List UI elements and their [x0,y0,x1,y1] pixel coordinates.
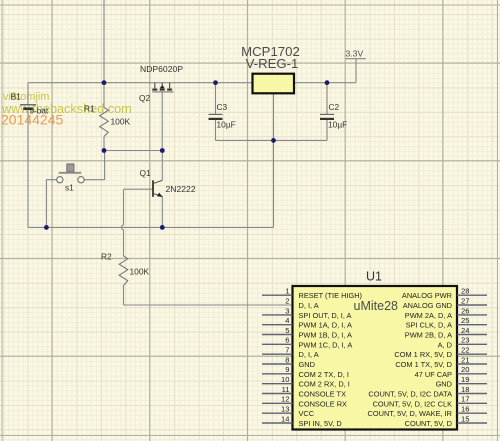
pin 9 COM 2 TX, D, I [262,365,349,379]
svg-text:10: 10 [281,375,289,384]
svg-text:21: 21 [461,355,469,364]
power flag 3.3V [346,49,367,59]
transistor Q2 NDP6020P (P-MOSFET) [139,64,183,103]
svg-text:A, D: A, D [438,340,452,349]
svg-text:GND: GND [436,380,452,389]
svg-text:14: 14 [281,414,289,423]
svg-text:CONSOLE TX: CONSOLE TX [299,390,347,399]
svg-text:100K: 100K [111,117,131,127]
wire top rail (battery + to V-REG input) [28,82,253,84]
svg-text:47 UF CAP: 47 UF CAP [415,370,452,379]
svg-text:27: 27 [461,296,469,305]
svg-text:9-bat: 9-bat [30,107,49,116]
svg-text:Q1: Q1 [140,168,152,178]
svg-text:ANALOG PWR: ANALOG PWR [402,291,452,300]
wire S1 left lead [46,180,56,228]
wire C3 column top [215,83,217,114]
wire C2 column top [326,83,328,114]
pin 3 SPI OUT, D, I, A [262,306,352,320]
svg-text:8: 8 [285,355,289,364]
svg-text:V-REG-1: V-REG-1 [246,56,299,71]
wire Q2 gate column [161,92,163,150]
svg-text:D, I, A: D, I, A [299,301,319,310]
svg-text:PWM 1A, D, I, A: PWM 1A, D, I, A [299,321,352,330]
switch S1 (pushbutton) [57,164,84,193]
capacitor C3 10uF [209,102,236,130]
svg-text:COUNT, 5V, D: COUNT, 5V, D [405,419,452,428]
wire Q1 base lead [124,188,153,190]
svg-text:17: 17 [461,395,469,404]
svg-text:Q2: Q2 [139,93,151,103]
resistor R1 100K [84,104,130,137]
svg-text:22: 22 [461,346,469,355]
svg-text:SPI OUT, D, I, A: SPI OUT, D, I, A [299,311,352,320]
pin 5 PWM 1B, D, I, A [262,326,352,340]
pin 24 PWM 2B, D, A [405,326,487,340]
wire V-REG output to 3.3V corner [294,82,356,84]
pin 25 SPI CLK, D, A [406,316,487,330]
wire V-REG ground pin [273,93,275,140]
pin 14 SPI IN, 5V, D [262,414,342,428]
capacitor C2 10uF [320,102,347,130]
svg-text:R1: R1 [84,104,95,114]
pin 10 COM 2 RX, D, I [262,375,350,389]
junction S1 / ground rail [44,225,49,230]
svg-text:18: 18 [461,385,469,394]
junction V-REG GND / capacitor rail [271,138,276,143]
svg-text:COM 2 RX, D, I: COM 2 RX, D, I [299,380,350,389]
svg-text:D, I, A: D, I, A [299,350,319,359]
svg-text:15: 15 [461,414,469,423]
svg-text:COUNT, 5V, D, WAKE, IR: COUNT, 5V, D, WAKE, IR [368,409,452,418]
wire R2 to U1 pin 2 [124,304,293,306]
svg-text:11: 11 [282,385,290,394]
pin 4 PWM 1A, D, I, A [262,316,352,330]
svg-text:10µF: 10µF [217,120,236,130]
resistor R2 100K [101,252,149,286]
wire battery column lower [27,109,29,227]
IC U1 uMite28 [293,270,458,430]
pin 13 VCC [262,405,315,419]
svg-text:6: 6 [285,336,289,345]
svg-text:C2: C2 [329,102,340,112]
junction R1 / S1 mid rail [102,148,107,153]
pin 21 COM 1 TX, 5V, D [395,355,487,369]
pin 2 D, I, A [285,296,318,310]
svg-text:COM 2 TX, D, I: COM 2 TX, D, I [299,370,349,379]
svg-text:GND: GND [299,360,315,369]
svg-text:R2: R2 [101,252,112,262]
svg-text:3.3V: 3.3V [346,49,364,59]
pin 15 COUNT, 5V, D [405,414,487,428]
svg-text:5: 5 [285,326,289,335]
pin 6 PWM 1C, D, I, A [262,336,352,350]
svg-text:25: 25 [461,316,469,325]
svg-text:NDP6020P: NDP6020P [140,64,183,74]
junction Q1 emitter / ground rail [160,225,165,230]
wire C3 column bottom [215,120,217,141]
svg-text:uMite28: uMite28 [354,299,399,313]
svg-text:VCC: VCC [299,409,315,418]
svg-text:COUNT, 5V, D, I2C CLK: COUNT, 5V, D, I2C CLK [373,399,452,408]
svg-text:13: 13 [281,405,289,414]
wire Q1 base to R2 with hop over ground rail [122,189,124,256]
svg-text:100K: 100K [130,267,150,277]
pin 12 CONSOLE RX [262,395,347,409]
junction Q2 gate / Q1 collector [160,148,165,153]
pin 11 CONSOLE TX [262,385,346,399]
svg-text:SPI IN, 5V, D: SPI IN, 5V, D [299,419,342,428]
svg-text:7: 7 [285,346,289,355]
svg-text:28: 28 [461,287,469,296]
svg-text:COUNT, 5V, D, I2C DATA: COUNT, 5V, D, I2C DATA [368,390,452,399]
wire bottom ground rail [28,226,274,228]
wire 3.3V riser [355,59,357,83]
wire from top edge (off-sheet supply) [103,0,105,83]
svg-text:9: 9 [285,365,289,374]
junction C2 / 3.3V output rail [325,80,330,85]
svg-text:PWM 2A, D, A: PWM 2A, D, A [405,311,452,320]
svg-text:RESET (TIE HIGH): RESET (TIE HIGH) [299,291,363,300]
wire S1 right lead [84,151,104,180]
svg-text:24: 24 [461,326,469,335]
svg-text:PWM 1C, D, I, A: PWM 1C, D, I, A [299,340,353,349]
svg-text:23: 23 [461,336,469,345]
svg-text:19: 19 [461,375,469,384]
pin 22 COM 1 RX, 5V, D [394,346,487,360]
svg-text:COM 1 TX, 5V, D: COM 1 TX, 5V, D [395,360,452,369]
pin 19 GND [436,375,487,389]
pin 27 ANALOG GND [403,296,487,310]
pin 20 47 UF CAP [415,365,487,379]
pin 1 RESET (TIE HIGH) [262,287,362,301]
svg-text:20: 20 [461,365,469,374]
svg-text:s1: s1 [65,184,74,193]
svg-text:PWM 1B, D, I, A: PWM 1B, D, I, A [299,331,352,340]
svg-text:4: 4 [285,316,289,325]
svg-text:ANALOG GND: ANALOG GND [403,301,452,310]
wire capacitor ground rail [216,139,328,141]
transistor Q1 2N2222 (NPN) [140,168,196,197]
svg-text:1: 1 [285,287,289,296]
junction R1 / top rail [102,80,107,85]
battery B1 [11,92,49,116]
svg-text:U1: U1 [366,270,382,284]
svg-text:SPI CLK, D, A: SPI CLK, D, A [406,321,452,330]
svg-text:2N2222: 2N2222 [166,184,196,194]
svg-text:2: 2 [285,296,289,305]
svg-text:12: 12 [281,395,289,404]
svg-text:C3: C3 [217,102,228,112]
wire R1 top stub [103,83,105,108]
pin 26 PWM 2A, D, A [405,306,487,320]
pin 8 GND [262,355,315,369]
wire mid rail (R1/S1 to gate/collector) [104,150,162,152]
wire C2 column bottom [326,120,328,141]
svg-text:26: 26 [461,306,469,315]
svg-text:CONSOLE RX: CONSOLE RX [299,399,348,408]
svg-text:PWM 2B, D, A: PWM 2B, D, A [405,331,452,340]
wire Q1 emitter drop [161,197,163,228]
wire R1 bottom stub [103,137,105,151]
svg-text:10µF: 10µF [328,120,347,130]
pin 7 D, I, A [262,346,319,360]
svg-text:COM 1 RX, 5V, D: COM 1 RX, 5V, D [394,350,452,359]
wire Q1 collector riser [161,151,163,181]
svg-text:16: 16 [461,405,469,414]
wire ground drop to bottom rail [273,140,275,227]
pin 17 COUNT, 5V, D, I2C CLK [373,395,487,409]
wire R2 bottom stub [123,286,125,306]
pin 16 COUNT, 5V, D, WAKE, IR [368,405,487,419]
voltage regulator MCP1702 V-REG-1 [241,44,300,93]
svg-text:B1: B1 [11,92,22,102]
pin 18 COUNT, 5V, D, I2C DATA [368,385,487,399]
junction C3 / V-REG input rail [213,80,218,85]
pin 28 ANALOG PWR [402,287,487,301]
wire battery column upper [27,83,29,105]
pin 23 A, D [438,336,487,350]
svg-text:3: 3 [285,306,289,315]
